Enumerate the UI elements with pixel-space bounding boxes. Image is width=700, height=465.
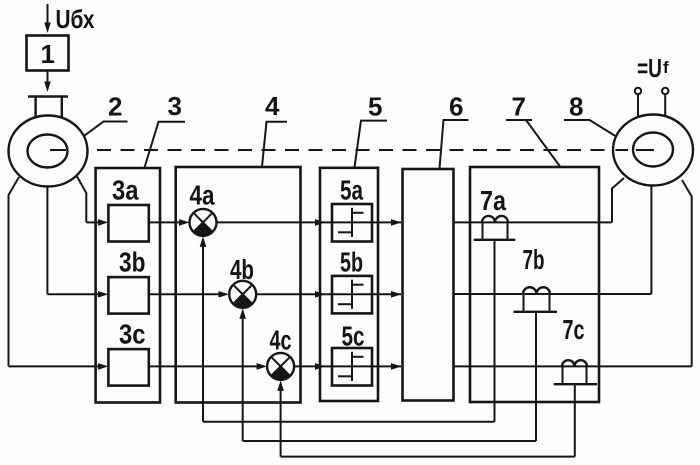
- machine 8 phase leg c: [682, 180, 692, 366]
- svg-text:5a: 5a: [340, 175, 363, 206]
- wire 4b to 5b: [256, 293, 331, 295]
- block 6: [403, 169, 454, 401]
- svg-text:3a: 3a: [112, 175, 139, 206]
- wire 6 to 7a and machine 8 leg a: [454, 221, 613, 223]
- svg-text:4a: 4a: [190, 180, 215, 211]
- input arrow Uвх: [47, 4, 49, 24]
- multiplier 4b: [229, 281, 256, 308]
- relay element 5a: [332, 204, 372, 242]
- svg-text:5c: 5c: [342, 320, 365, 351]
- relay element 5b: [332, 276, 372, 314]
- machine 8 phase leg b: [650, 186, 652, 295]
- wire 4a to 5a: [217, 221, 332, 223]
- multiplier 4a: [190, 209, 217, 236]
- machine 8 (motor) stator: [613, 115, 693, 186]
- shaft dash at machine 8 edge: [616, 149, 629, 151]
- multiplier 4c: [267, 353, 294, 380]
- block 4: [176, 167, 301, 403]
- feedback line B (7b to 4b): [243, 440, 536, 442]
- svg-text:7a: 7a: [480, 185, 506, 216]
- svg-text:5: 5: [368, 92, 382, 122]
- wire 7c to feedback line C: [574, 384, 576, 456]
- block 3c: [108, 349, 148, 386]
- block 3: [96, 168, 160, 403]
- machine 8 terminal lead right: [664, 94, 666, 133]
- machine 8 rotor: [633, 133, 673, 167]
- block 5: [320, 168, 378, 401]
- machine 8 terminal lead left: [637, 94, 639, 134]
- machine 8 terminal right: [662, 88, 668, 94]
- svg-text:6: 6: [449, 92, 463, 122]
- transformer 7b: [514, 287, 558, 312]
- machine 2 (generator) stator: [9, 116, 88, 187]
- block 7: [470, 167, 599, 402]
- block 1 (input converter): [27, 36, 69, 71]
- svg-text:7: 7: [512, 92, 526, 122]
- wire 7a to feedback line A: [494, 240, 496, 422]
- wire 3c to 4c: [149, 365, 258, 367]
- wire 4c to 5c: [294, 365, 331, 367]
- svg-text:8: 8: [569, 92, 583, 122]
- block 3a: [108, 205, 148, 242]
- machine 2 brush lead right: [61, 97, 63, 136]
- machine 2 rotor: [28, 135, 68, 168]
- feedback arrow into 4c: [280, 390, 282, 457]
- feedback arrow into 4a: [202, 246, 204, 422]
- svg-text:f: f: [663, 58, 669, 77]
- wire 3b to 4b: [149, 293, 220, 295]
- svg-text:Uбх: Uбх: [56, 4, 95, 34]
- transformer 7a: [474, 216, 516, 240]
- wire 6 to 7c and machine 8 leg c: [454, 365, 692, 367]
- machine 2 brush bar: [28, 95, 68, 97]
- relay element 5c: [332, 348, 372, 386]
- svg-text:4c: 4c: [270, 325, 292, 356]
- svg-text:5b: 5b: [340, 247, 363, 278]
- svg-text:7b: 7b: [523, 244, 545, 275]
- svg-text:1: 1: [41, 39, 55, 69]
- wire 3a to 4a: [149, 221, 180, 223]
- svg-text:3b: 3b: [119, 246, 146, 277]
- transformer 7c: [554, 360, 597, 384]
- wire block 1 to machine 2: [47, 71, 49, 84]
- feedback arrow into 4b: [242, 318, 244, 442]
- svg-text:=U: =U: [637, 53, 662, 83]
- wire 6 to 7b and machine 8 leg b: [454, 293, 652, 295]
- machine 2 phase leg b: [46, 187, 48, 295]
- wire leg a to 3a: [86, 221, 99, 223]
- wire 5a to 6: [372, 221, 401, 223]
- wire leg b to 3b: [47, 293, 99, 295]
- wire leg c to 3c: [9, 365, 100, 367]
- feedback line A (7a to 4a): [203, 421, 495, 423]
- machine 8 phase leg a: [612, 178, 624, 222]
- svg-text:2: 2: [108, 92, 122, 122]
- shaft dash inside machine 2: [50, 149, 66, 151]
- svg-text:7c: 7c: [563, 314, 585, 345]
- svg-text:4: 4: [265, 91, 280, 121]
- shaft dash inside machine 8: [636, 149, 654, 151]
- svg-text:3: 3: [168, 91, 182, 121]
- svg-text:3c: 3c: [119, 318, 146, 349]
- machine 2 phase leg a: [77, 177, 86, 223]
- feedback line C (7c to 4c): [281, 456, 575, 458]
- machine 8 terminal left: [635, 88, 641, 94]
- wire 5b to 6: [372, 293, 401, 295]
- machine 2 phase leg c: [9, 177, 20, 366]
- wire 7b to feedback line B: [535, 312, 537, 441]
- block 3b: [108, 277, 148, 314]
- wire 5c to 6: [372, 365, 401, 367]
- machine 2 brush lead left: [34, 97, 36, 136]
- shaft dashed line: [97, 149, 613, 151]
